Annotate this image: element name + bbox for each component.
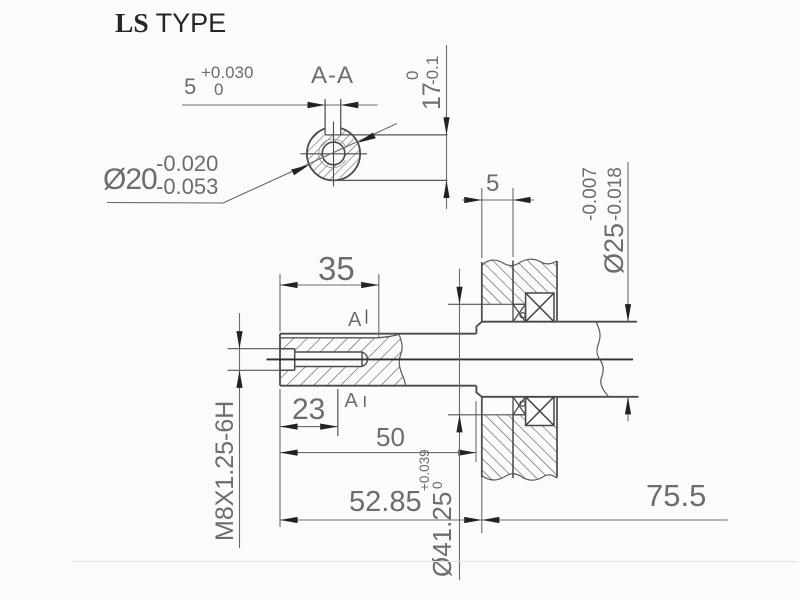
hole top edge extension left: [228, 348, 281, 350]
svg-text:0: 0: [214, 80, 223, 99]
dimension Ø25 -0.007/-0.018: [580, 162, 631, 421]
svg-text:0: 0: [430, 481, 445, 489]
bearing lower (crossed box): [526, 397, 554, 426]
circle horizontal centerline: [301, 153, 368, 155]
svg-text:17: 17: [418, 82, 446, 110]
svg-text:A: A: [348, 309, 362, 331]
tapped hole counterbore rect: [280, 349, 295, 371]
svg-text:-0.018: -0.018: [605, 167, 626, 221]
keyway slot left wall: [324, 99, 326, 135]
housing wall hatch lower: [482, 415, 557, 480]
dimension 52.85: [280, 465, 482, 533]
shaft section outer circle: [307, 127, 360, 180]
dimension 17 0/-0.1: [403, 45, 450, 209]
dimension 50: [280, 401, 476, 462]
hole bottom edge extension left: [228, 369, 281, 371]
keyway bottom line with runout: [280, 334, 399, 338]
seal upper (small crossed box with circle): [513, 304, 525, 321]
svg-text:-0.1: -0.1: [423, 56, 442, 85]
svg-text:23: 23: [292, 393, 325, 426]
svg-text:Ø41.25: Ø41.25: [427, 492, 457, 577]
svg-text:-0.007: -0.007: [580, 167, 601, 221]
housing wavy bottom edge: [482, 474, 557, 480]
svg-text:-0.020: -0.020: [156, 151, 218, 176]
tapped hole thread rect with drill cap: [295, 352, 368, 367]
section line A bottom: [337, 389, 339, 436]
dimension 23: [280, 389, 338, 527]
svg-text:75.5: 75.5: [646, 478, 706, 513]
dimension 35 keyway length: [280, 250, 379, 338]
keyway slot right wall: [340, 99, 342, 135]
svg-text:35: 35: [318, 250, 355, 287]
keyway flat line extended right (17 upper extension): [325, 134, 447, 136]
shaft bottom edge: [280, 385, 476, 387]
housing right face: [556, 261, 558, 322]
svg-text:52.85: 52.85: [349, 486, 422, 518]
svg-text:Ø20: Ø20: [103, 163, 157, 196]
circle vertical centerline: [333, 122, 335, 187]
svg-text:LS TYPE: LS TYPE: [115, 7, 226, 38]
shoulder step Ø20 to Ø25: [476, 322, 481, 397]
leader line through circle: [223, 124, 397, 204]
housing wall hatch upper: [482, 259, 557, 304]
housing wavy top edge: [482, 259, 557, 265]
M8X1.25-6H thread callout: [211, 313, 243, 548]
housing left face: [481, 262, 483, 322]
thread major arc: [319, 139, 346, 168]
bearing upper (crossed box): [526, 293, 554, 322]
housing bore step face: [512, 261, 514, 305]
faint border line bottom: [72, 561, 798, 563]
svg-text:0: 0: [403, 71, 422, 80]
section hatch fill: [300, 120, 370, 190]
svg-text:5: 5: [184, 74, 196, 99]
Ø25 journal bottom edge with extension: [482, 396, 639, 398]
dimension Ø41.25 +0.039/0: [417, 269, 525, 580]
text underline: [107, 202, 223, 205]
dimension 5 wall thickness: [462, 170, 534, 258]
seal lower (small crossed box with circle): [513, 397, 525, 415]
svg-text:Ø25: Ø25: [599, 223, 629, 274]
svg-text:5: 5: [486, 170, 499, 197]
shaft top edge: [280, 333, 476, 335]
svg-text:A: A: [345, 390, 359, 412]
svg-text:+0.030: +0.030: [201, 63, 253, 82]
svg-text:50: 50: [376, 422, 405, 452]
Ø25 journal top edge with extension: [482, 321, 637, 323]
circle bottom tangent extension (17 lower extension): [333, 179, 448, 181]
svg-text:M8X1.25-6H: M8X1.25-6H: [211, 401, 239, 541]
wavy break line Ø25 end: [596, 322, 609, 397]
dimension Ø20 -0.020/-0.053 with leader through circle: [103, 124, 397, 204]
svg-text:-0.053: -0.053: [156, 174, 218, 199]
shaft end face: [279, 334, 281, 386]
shaft hatch region with hole cutouts: [280, 334, 405, 385]
svg-text:A-A: A-A: [311, 62, 354, 89]
dimension 75.5: [482, 478, 728, 523]
main centerline: [267, 358, 634, 360]
keyway slot white cutout: [325, 118, 341, 135]
dimension 5 +0.030/0 keyway width: [182, 63, 378, 108]
tapped hole inner circle: [322, 142, 345, 165]
wavy break line shaft: [399, 334, 405, 385]
